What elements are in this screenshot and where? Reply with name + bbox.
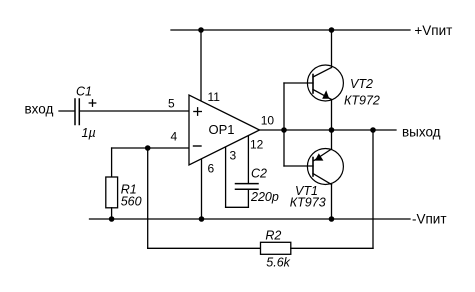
VT2 emitter vertical to output [331,100,333,131]
wire R2 right riser to output [372,130,374,248]
wire pin 6 to -Vpit [201,159,203,219]
wire feedback riser (pin4 node down to R2) [147,148,149,248]
svg-text:OP1: OP1 [209,122,235,137]
wire pin 11 to +Vpit [200,30,202,101]
transistor Q2 VT2 circle [307,65,343,101]
node junction R2 riser/output [370,127,376,133]
wire R1 bottom to -Vpit rail [111,208,113,219]
wire pin 3 down [225,147,227,207]
VT2 emitter arrow [322,90,329,99]
wire pin3 bottom horizontal to C2 [226,206,249,208]
resistor R1 [106,177,118,208]
svg-text:11: 11 [208,90,221,104]
svg-text:10: 10 [261,114,275,128]
node junction VT1 collector/-Vpit [329,216,335,222]
VT2 emitter diagonal [313,90,332,100]
node junction pin4/feedback [145,145,151,151]
svg-text:выход: выход [402,124,441,139]
wire pin 4 horizontal [112,147,189,149]
op-amp minus input symbol [194,145,202,147]
node junction bases/output [281,127,287,133]
VT1 base bar [312,158,314,177]
wire R2 right horizontal [291,247,373,249]
node junction pin11/+Vpit [198,27,204,33]
svg-text:12: 12 [250,138,264,152]
VT1 collector vertical to -Vpit [331,185,333,220]
svg-text:C2: C2 [251,166,267,180]
svg-text:220p: 220p [250,190,279,204]
wire C1 to op-amp pin 5 [80,110,189,112]
node junction emitters/output [329,127,335,133]
svg-text:1µ: 1µ [82,126,96,140]
svg-text:КТ973: КТ973 [290,196,326,210]
resistor R2 [261,242,291,254]
op-amp U1 OP1 triangle [189,95,260,165]
svg-text:R2: R2 [265,229,281,243]
svg-text:+Vпит: +Vпит [414,23,452,38]
node junction R1/-Vpit [109,216,115,222]
svg-text:5: 5 [168,97,175,111]
svg-text:5.6k: 5.6k [266,256,290,270]
svg-text:C1: C1 [76,85,92,99]
svg-text:4: 4 [171,130,178,144]
wire VT2 collector vertical [331,30,333,68]
wire VT2 base stub [284,82,313,84]
wire op-amp output [260,129,397,131]
wire pin4 corner down to R1 [111,148,113,177]
svg-text:3: 3 [230,149,237,163]
VT2 base bar [312,75,314,94]
wire pin 12 down to C2 [247,136,249,184]
svg-text:560: 560 [121,195,142,209]
wire VT1 base stub [284,165,313,167]
wire R2 left horizontal [148,247,261,249]
transistor Q1 VT1 circle [307,149,343,185]
node junction VT2 collector/+Vpit [329,27,335,33]
svg-text:6: 6 [208,162,215,176]
VT1 emitter diagonal [314,149,332,161]
VT2 collector diagonal [313,68,332,78]
VT1 emitter arrow [315,153,324,160]
capacitor C2 [236,184,259,190]
node junction pin6/-Vpit [199,216,205,222]
svg-text:VT2: VT2 [350,77,373,91]
svg-text:КТ972: КТ972 [344,93,380,107]
op-amp plus input symbol [193,107,202,116]
net +Vpit rail [171,29,410,31]
svg-text:вход: вход [25,102,54,117]
wire C2 bottom plate down [247,189,249,207]
svg-text:-Vпит: -Vпит [412,211,447,226]
wire input to C1 [59,110,74,112]
wire base node vertical [283,83,285,166]
VT1 emitter vertical from output [331,130,333,149]
capacitor C1 [75,99,79,125]
net -Vpit rail [90,218,411,220]
VT1 collector diagonal [313,174,332,185]
label C1 polarity + [89,99,97,107]
